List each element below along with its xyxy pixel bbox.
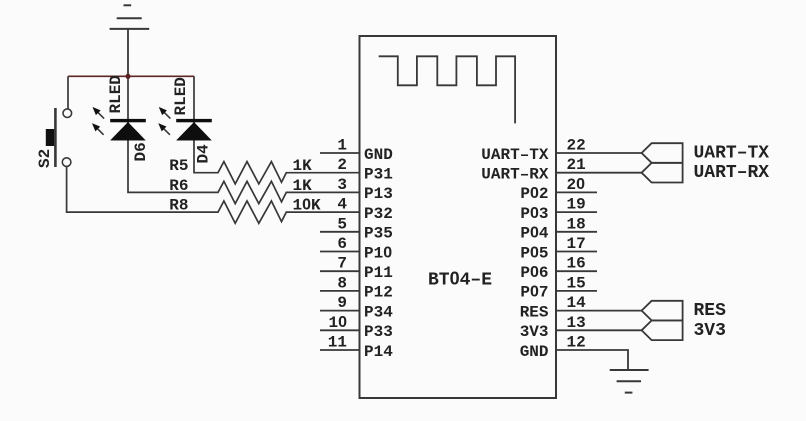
svg-text:22: 22 xyxy=(567,137,586,155)
svg-text:P10: P10 xyxy=(364,244,392,262)
svg-text:R5: R5 xyxy=(169,157,188,175)
svg-text:12: 12 xyxy=(567,334,586,352)
svg-text:BT04–E: BT04–E xyxy=(428,269,492,291)
svg-text:P31: P31 xyxy=(364,166,393,184)
svg-text:9: 9 xyxy=(337,294,347,312)
svg-text:P02: P02 xyxy=(520,185,548,203)
svg-text:P03: P03 xyxy=(520,205,548,223)
svg-text:R6: R6 xyxy=(169,177,188,195)
svg-text:1K: 1K xyxy=(293,157,313,175)
svg-text:18: 18 xyxy=(567,215,586,233)
svg-text:20: 20 xyxy=(567,176,586,194)
svg-text:UART–RX: UART–RX xyxy=(694,163,770,183)
svg-text:10: 10 xyxy=(328,314,347,332)
svg-text:P07: P07 xyxy=(520,284,548,302)
svg-text:1K: 1K xyxy=(293,177,313,195)
svg-text:P34: P34 xyxy=(364,303,393,321)
svg-text:P13: P13 xyxy=(364,185,393,203)
svg-text:3: 3 xyxy=(337,176,347,194)
svg-text:3V3: 3V3 xyxy=(694,321,726,341)
svg-text:UART–TX: UART–TX xyxy=(481,146,549,164)
svg-text:4: 4 xyxy=(337,196,347,214)
svg-text:UART–RX: UART–RX xyxy=(481,166,549,184)
svg-text:P14: P14 xyxy=(364,343,393,361)
svg-text:13: 13 xyxy=(567,314,586,332)
svg-text:P05: P05 xyxy=(520,244,548,262)
svg-text:16: 16 xyxy=(567,255,586,273)
svg-text:RLED: RLED xyxy=(107,75,125,113)
svg-text:19: 19 xyxy=(567,196,586,214)
svg-text:7: 7 xyxy=(337,255,347,273)
svg-text:11: 11 xyxy=(328,334,347,352)
svg-text:8: 8 xyxy=(337,274,347,292)
svg-text:P32: P32 xyxy=(364,205,393,223)
svg-text:10K: 10K xyxy=(293,197,322,215)
svg-text:2: 2 xyxy=(337,156,347,174)
svg-text:GND: GND xyxy=(364,146,393,164)
svg-text:S2: S2 xyxy=(36,149,54,168)
svg-text:15: 15 xyxy=(567,274,586,292)
svg-text:R8: R8 xyxy=(169,197,188,215)
svg-text:P11: P11 xyxy=(364,264,393,282)
svg-text:1: 1 xyxy=(337,137,347,155)
svg-text:21: 21 xyxy=(567,156,586,174)
svg-text:P06: P06 xyxy=(520,264,548,282)
svg-text:5: 5 xyxy=(337,215,347,233)
svg-text:RES: RES xyxy=(694,301,727,321)
svg-text:RES: RES xyxy=(520,303,549,321)
svg-text:6: 6 xyxy=(337,235,347,253)
svg-text:14: 14 xyxy=(567,294,587,312)
svg-text:D6: D6 xyxy=(132,142,150,161)
svg-text:P35: P35 xyxy=(364,225,393,243)
svg-text:17: 17 xyxy=(567,235,586,253)
svg-text:P04: P04 xyxy=(520,225,549,243)
svg-text:P12: P12 xyxy=(364,284,393,302)
svg-text:RLED: RLED xyxy=(172,77,190,115)
svg-text:GND: GND xyxy=(520,343,549,361)
svg-text:P33: P33 xyxy=(364,323,393,341)
svg-text:D4: D4 xyxy=(195,144,213,164)
svg-text:3V3: 3V3 xyxy=(520,323,549,341)
svg-text:UART–TX: UART–TX xyxy=(694,144,770,164)
